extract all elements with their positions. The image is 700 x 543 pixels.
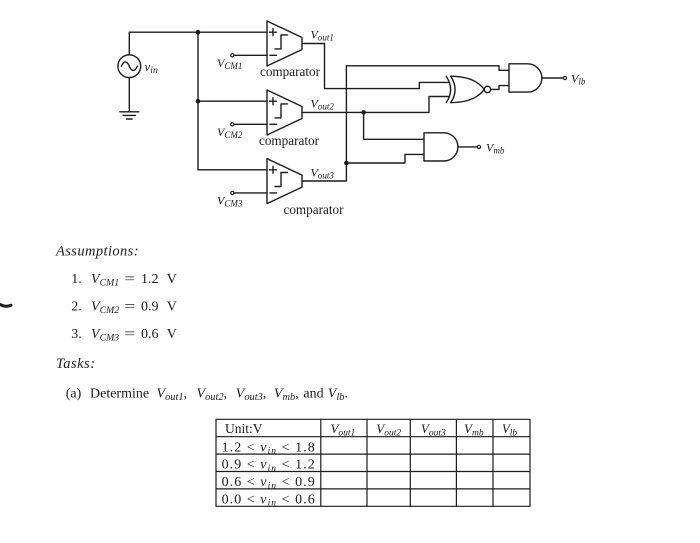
terminal Vmb — [477, 145, 480, 148]
table grid — [216, 419, 530, 506]
terminal VCM1 — [231, 54, 234, 57]
svg-text:Vmb: Vmb — [486, 140, 505, 155]
wire comparator1 plus input — [198, 31, 267, 33]
wire AND1 output — [542, 77, 563, 79]
svg-text:Vout3: Vout3 — [421, 421, 446, 438]
terminal VCM3 — [231, 191, 234, 194]
wire Vout2 to XNOR bottom input — [302, 97, 448, 113]
and gate U6 (Vmb) — [424, 133, 458, 161]
svg-text:1.2 < vin < 1.8: 1.2 < vin < 1.8 — [222, 440, 316, 456]
comparator U2 — [267, 90, 302, 135]
svg-text:Tasks:: Tasks: — [56, 356, 96, 372]
wire Vout1 to XNOR top input — [302, 44, 448, 89]
svg-text:VCM1: VCM1 — [217, 56, 242, 71]
svg-text:VCM3: VCM3 — [217, 193, 243, 208]
wire comparator1 minus input — [234, 54, 267, 56]
svg-text:Vout2: Vout2 — [311, 96, 335, 111]
terminal Vlb — [563, 76, 566, 79]
svg-text:Assumptions:: Assumptions: — [55, 243, 139, 259]
svg-text:comparator: comparator — [283, 202, 344, 217]
svg-text:(a)DetermineVout1,Vout2,Vout3,: (a)DetermineVout1,Vout2,Vout3,Vmb,andVlb… — [66, 387, 348, 403]
voltage source vin — [118, 55, 141, 78]
svg-text:Vout3: Vout3 — [311, 165, 335, 180]
comparator U3 — [267, 159, 302, 204]
svg-text:0.0 < vin < 0.6: 0.0 < vin < 0.6 — [222, 493, 316, 509]
xnor gate U4 — [446, 76, 490, 103]
svg-text:2.VCM2=0.9V: 2.VCM2=0.9V — [71, 300, 177, 316]
wire Vout3 branch to AND2 bottom input — [346, 154, 424, 163]
svg-text:0.6 < vin < 0.9: 0.6 < vin < 0.9 — [222, 475, 316, 491]
wire comparator3 plus input — [198, 169, 267, 171]
svg-text:vin: vin — [145, 59, 159, 76]
wire Vout3 up to AND1 top input — [302, 66, 509, 181]
wire comparator3 minus input — [234, 192, 267, 194]
wire xnor output to AND1 bottom input — [491, 86, 509, 90]
svg-text:0.9 < vin < 1.2: 0.9 < vin < 1.2 — [222, 458, 316, 474]
svg-text:Vout1: Vout1 — [311, 27, 334, 42]
wire AND2 output — [458, 146, 477, 148]
node junction on Vout3 riser — [344, 161, 349, 166]
svg-text:Vlb: Vlb — [502, 421, 518, 438]
svg-text:comparator: comparator — [260, 64, 321, 79]
svg-text:Vout1: Vout1 — [330, 421, 355, 438]
node junction bus middle — [196, 99, 201, 104]
comparator U1 — [267, 21, 302, 66]
svg-text:Unit:V: Unit:V — [225, 421, 263, 436]
and gate U5 (Vlb) — [509, 64, 542, 92]
wire vin top to bus — [129, 32, 198, 55]
wire comparator2 plus input — [198, 100, 267, 102]
ground — [120, 78, 139, 119]
wire comparator2 minus input — [234, 123, 267, 125]
stray pen mark left margin — [0, 305, 11, 307]
svg-text:3.VCM3=0.6V: 3.VCM3=0.6V — [71, 327, 177, 343]
svg-text:Vout2: Vout2 — [376, 421, 401, 438]
wire vertical bus — [197, 32, 199, 170]
svg-text:Vmb: Vmb — [464, 421, 484, 438]
svg-text:VCM2: VCM2 — [217, 125, 243, 140]
svg-text:Vlb: Vlb — [571, 72, 586, 87]
terminal VCM2 — [231, 123, 234, 126]
svg-text:1.VCM1=1.2V: 1.VCM1=1.2V — [71, 272, 177, 288]
wire Vout2 branch to AND2 top input — [364, 112, 424, 139]
node junction bus top — [196, 30, 201, 35]
svg-text:comparator: comparator — [259, 133, 320, 148]
node junction on Vout2 wire — [361, 110, 366, 115]
